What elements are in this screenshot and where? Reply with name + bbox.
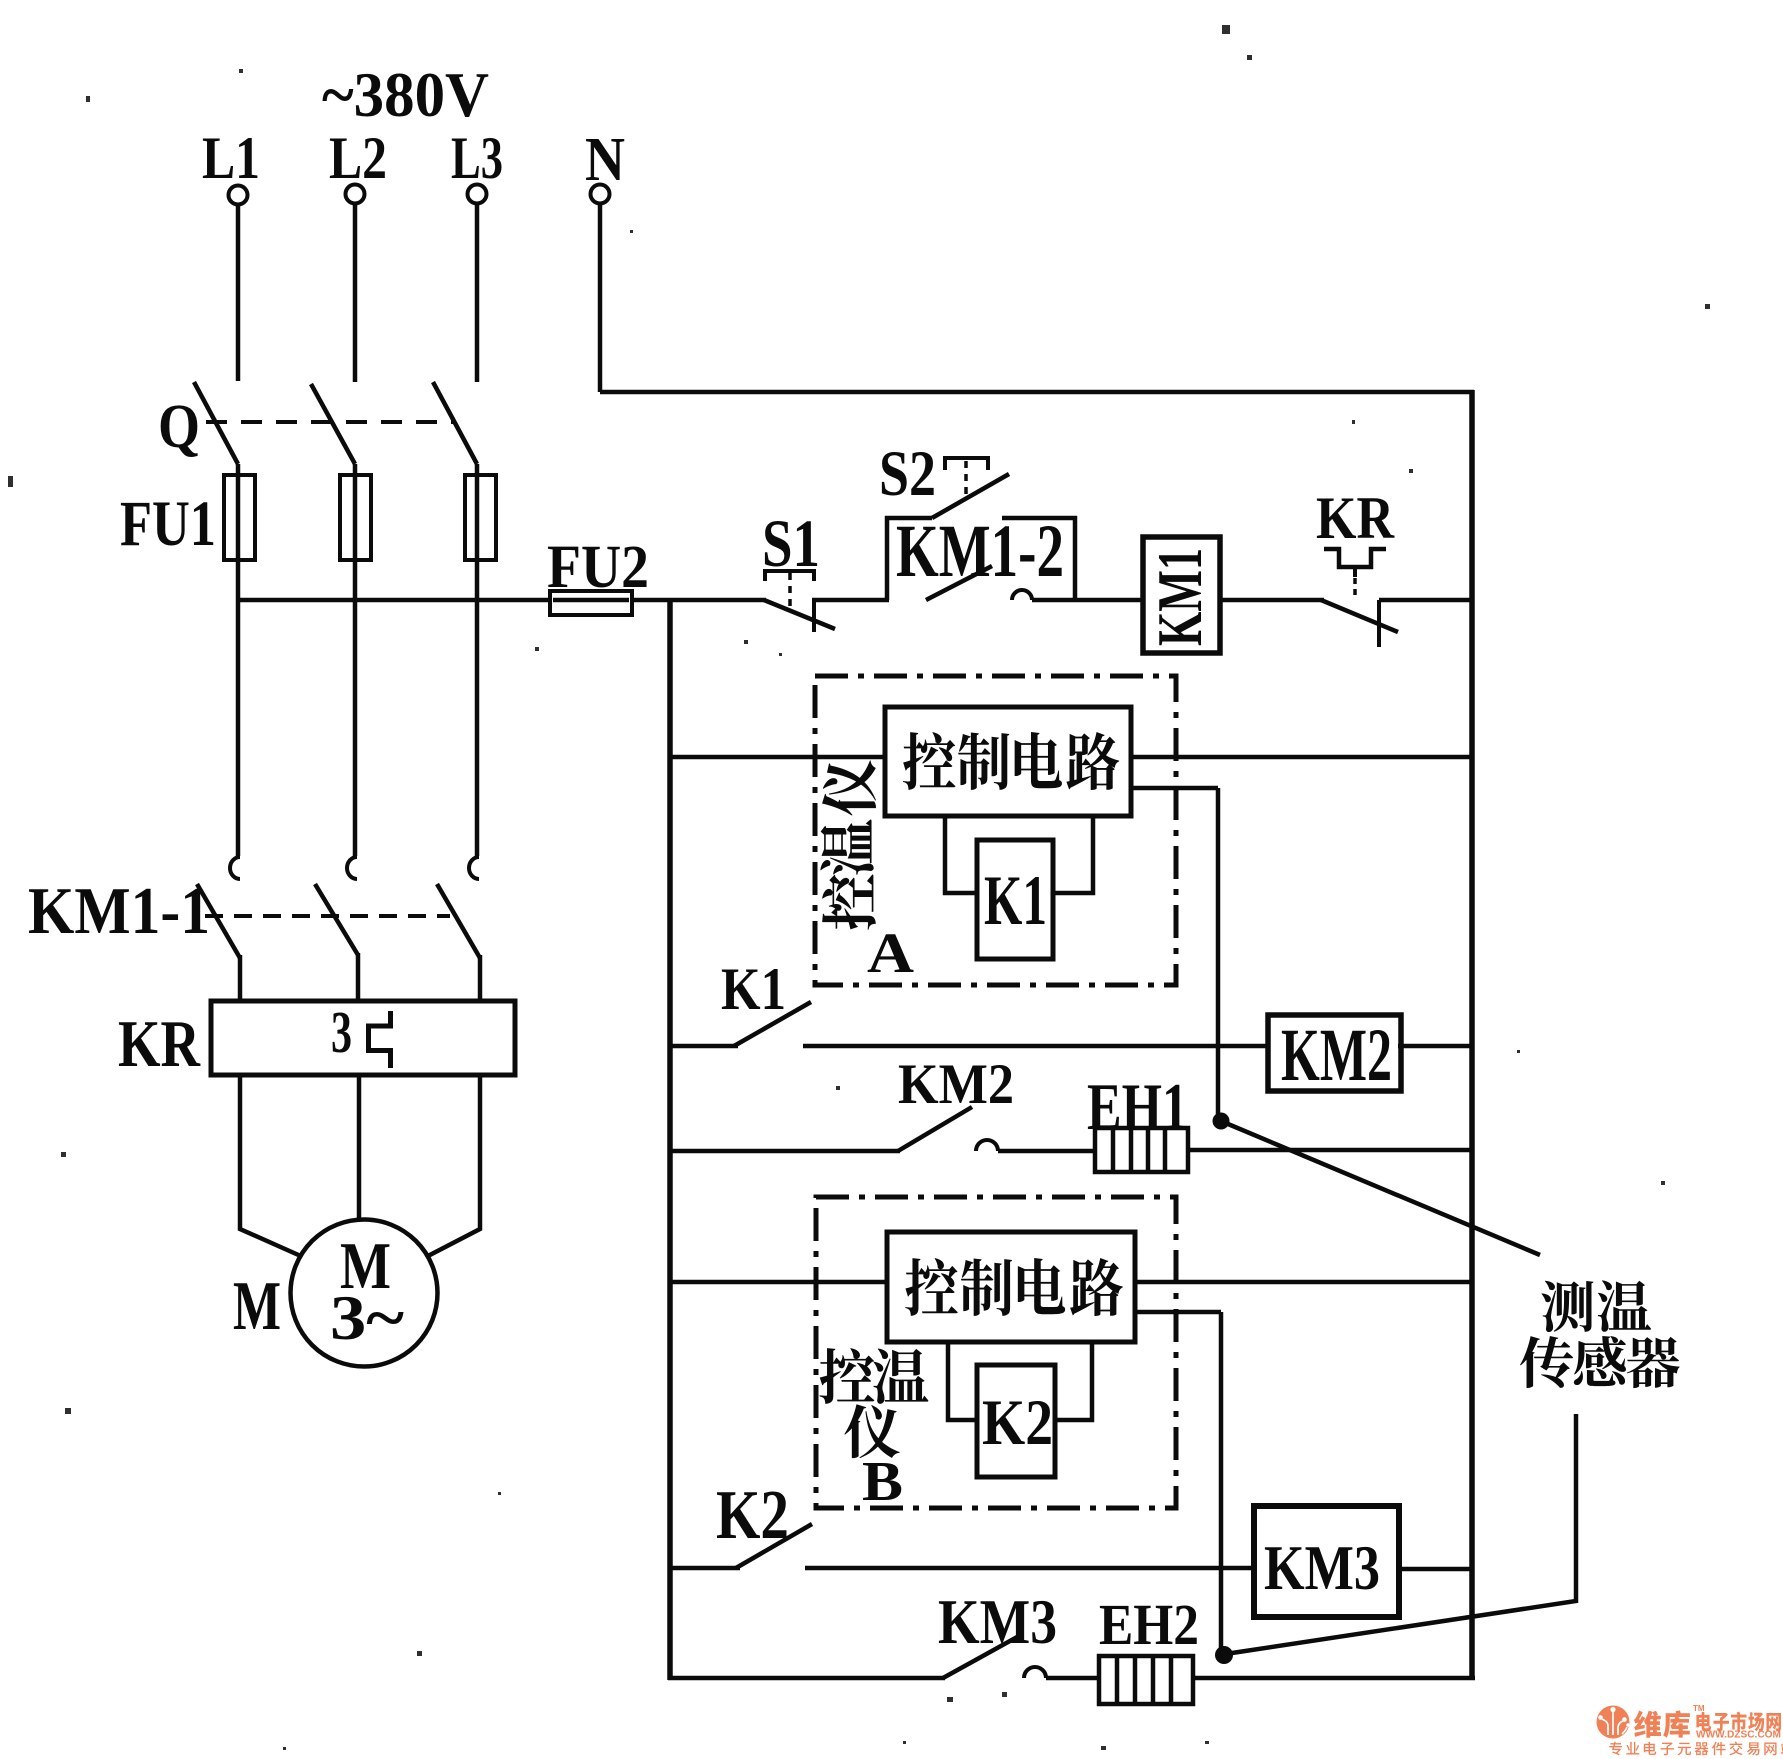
- svg-text:K2: K2: [982, 1387, 1053, 1459]
- wire KM1-2 to KM1 coil: [1075, 598, 1146, 603]
- wire pole1 to KR: [238, 955, 243, 1004]
- wire row A right: [1129, 755, 1472, 760]
- svg-text:A: A: [867, 922, 914, 985]
- wires control-circuit B to K2: [948, 1342, 979, 1420]
- wire L1 drop: [236, 205, 241, 381]
- switch Q pole 3: [433, 382, 477, 464]
- wire row K2 left: [670, 1566, 740, 1571]
- svg-text:KR: KR: [1316, 485, 1395, 551]
- relay K1: [977, 840, 1053, 959]
- svg-text:TM: TM: [1693, 1704, 1705, 1713]
- coil KM1: [1143, 537, 1220, 653]
- svg-text:M: M: [233, 1268, 281, 1345]
- watermark logo: [1597, 1706, 1630, 1739]
- wire N horizontal: [600, 390, 1474, 395]
- svg-text:3: 3: [331, 999, 352, 1065]
- contact KM1-1 pole 3: [469, 857, 479, 879]
- svg-text:EH2: EH2: [1099, 1592, 1199, 1657]
- svg-text:KR: KR: [118, 1007, 201, 1081]
- sensor wire from controller A: [1129, 786, 1218, 791]
- button S2: [945, 456, 988, 460]
- switch Q link: [206, 420, 455, 424]
- svg-text:L3: L3: [451, 125, 503, 191]
- relay K2: [977, 1365, 1055, 1477]
- wire row K1: [803, 1044, 1271, 1049]
- svg-text:B: B: [862, 1451, 903, 1513]
- junction dot sensor B: [1215, 1646, 1233, 1664]
- contact KM1-2 branch: [885, 516, 890, 600]
- wire N bus right: [1469, 390, 1475, 1680]
- wire row EH2 left: [668, 1676, 945, 1681]
- switch Q pole 1: [194, 382, 238, 464]
- coil KM3: [1254, 1506, 1399, 1617]
- terminal L1: [229, 186, 248, 205]
- leader line sensor A: [1228, 1124, 1540, 1255]
- wire KR to motor w: [426, 1075, 480, 1257]
- wire EH1 to N bus: [1188, 1148, 1472, 1153]
- box control-circuit B (控制电路): [887, 1232, 1135, 1342]
- terminal L3: [468, 185, 487, 204]
- contact KM3: [943, 1636, 1019, 1678]
- label 控温仪 (B): [820, 1348, 875, 1404]
- contact K1: [734, 1002, 811, 1046]
- sensor wire from controller B: [1133, 1310, 1221, 1315]
- wire control bus left: [667, 598, 673, 1680]
- svg-text:K1: K1: [984, 862, 1047, 940]
- junction dot sensor A: [1213, 1113, 1230, 1130]
- wire pole3 to KR: [478, 955, 483, 1004]
- label 测温传感器: [1541, 1281, 1593, 1332]
- wire row B left: [670, 1280, 889, 1285]
- motor M: [291, 1220, 438, 1367]
- leader line sensor B: [1232, 1414, 1576, 1653]
- wire FU2 to S1: [632, 598, 766, 603]
- contact KM1-1 pole 1: [230, 857, 240, 879]
- wire KM2 contact to EH1: [998, 1149, 1097, 1154]
- wires control-circuit A to K1: [945, 816, 979, 893]
- svg-text:L1: L1: [202, 125, 260, 191]
- contact KM1-1 pole 2: [347, 857, 357, 879]
- heater EH1: [1095, 1128, 1188, 1172]
- contact K2: [736, 1524, 812, 1568]
- fuse FU1 pole 3: [465, 475, 496, 560]
- wire L3 Q to KM1-1: [475, 464, 480, 856]
- wire row K2: [805, 1566, 1257, 1571]
- terminal L2: [346, 185, 365, 204]
- svg-text:KM3: KM3: [1264, 1532, 1380, 1603]
- wire KR contact to N bus: [1379, 598, 1472, 603]
- contact KM2: [898, 1107, 972, 1151]
- wire L2 drop: [353, 204, 358, 382]
- switch Q pole 2: [311, 384, 355, 464]
- wire KM2 coil to N bus: [1398, 1044, 1472, 1049]
- svg-text:K1: K1: [721, 956, 786, 1022]
- wire row B right: [1133, 1280, 1472, 1285]
- wire L2 Q to KM1-1: [353, 464, 358, 856]
- wire row EH1 left: [670, 1149, 900, 1154]
- svg-text:3~: 3~: [330, 1282, 404, 1353]
- svg-text:KM1: KM1: [1144, 548, 1215, 646]
- wire S1 to KM1-2: [812, 598, 889, 603]
- fuse FU2: [550, 598, 632, 603]
- wire row K1 left: [670, 1044, 738, 1049]
- box control-circuit A (控制电路): [885, 707, 1131, 816]
- wire pole2 to KR: [356, 953, 361, 1004]
- svg-text:KM1-1: KM1-1: [28, 874, 210, 948]
- wire KM1 coil to KR contact: [1220, 598, 1324, 603]
- coil KM2: [1268, 1015, 1401, 1091]
- wire EH2 to N bus: [1193, 1676, 1475, 1681]
- wire N drop: [598, 204, 603, 392]
- contact KR (NC): [1324, 549, 1386, 567]
- svg-text:KM2: KM2: [898, 1053, 1014, 1116]
- fuse FU1 pole 1: [224, 475, 255, 560]
- svg-text:FU1: FU1: [120, 488, 216, 560]
- svg-text:~380V: ~380V: [322, 59, 489, 130]
- KR heater element symbol: [369, 1011, 391, 1068]
- wire KR to motor u: [240, 1075, 303, 1257]
- wire row A left: [670, 755, 887, 760]
- controller A enclosure (dash-dot): [815, 676, 1176, 985]
- contactor KM1-1 link: [205, 914, 450, 918]
- controller B enclosure (dash-dot): [816, 1197, 1176, 1508]
- svg-text:KM2: KM2: [1281, 1014, 1392, 1097]
- svg-text:L2: L2: [329, 125, 387, 191]
- svg-text:Q: Q: [158, 393, 200, 461]
- wire L3 drop: [475, 204, 480, 382]
- wire KR to motor v: [357, 1075, 362, 1222]
- thermal relay KR heater box: [211, 1001, 515, 1075]
- fuse FU1 pole 2: [340, 475, 371, 560]
- label 控温仪 (A): [822, 874, 876, 929]
- svg-text:WWW.DZSC.COM: WWW.DZSC.COM: [1696, 1730, 1781, 1741]
- wire KM3 coil to N bus: [1396, 1567, 1472, 1572]
- heater EH2: [1099, 1656, 1193, 1704]
- wire KM3 contact to EH2: [1046, 1676, 1101, 1681]
- svg-text:KM1-2: KM1-2: [896, 510, 1064, 593]
- wire L1 Q to KM1-1: [236, 464, 241, 856]
- terminal N: [591, 185, 610, 204]
- wire control tap: [238, 598, 552, 603]
- svg-text:S2: S2: [879, 438, 936, 510]
- button S1: [765, 569, 814, 573]
